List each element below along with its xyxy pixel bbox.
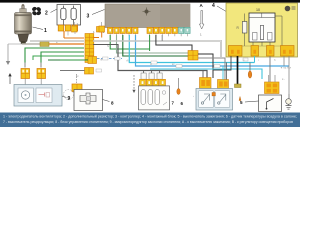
svg-text:ж: ж xyxy=(56,41,58,44)
svg-text:бг: бг xyxy=(107,44,109,48)
svg-text:4: 4 xyxy=(212,3,215,9)
svg-text:г: г xyxy=(258,59,259,62)
svg-text:1 - электродвигатель вентилято: 1 - электродвигатель вентилятора; 2 - до… xyxy=(3,114,297,118)
svg-text:8: 8 xyxy=(111,101,114,106)
svg-text:жг: жг xyxy=(172,63,175,66)
svg-text:‹: ‹ xyxy=(193,94,194,98)
svg-text:5: 5 xyxy=(240,100,243,105)
svg-text:в -: в - xyxy=(282,78,285,81)
svg-text:10: 10 xyxy=(256,8,260,12)
svg-text:7 - выключатель рециркуляции;: 7 - выключатель рециркуляции; 8 - блок у… xyxy=(3,120,293,124)
svg-text:пг: пг xyxy=(100,59,102,62)
svg-text:1: 1 xyxy=(44,28,47,34)
svg-text:◄ пр.бел: ◄ пр.бел xyxy=(280,66,292,70)
svg-text:3: 3 xyxy=(87,14,90,20)
svg-text:сг: сг xyxy=(150,63,152,66)
svg-text:2: 2 xyxy=(45,11,48,17)
